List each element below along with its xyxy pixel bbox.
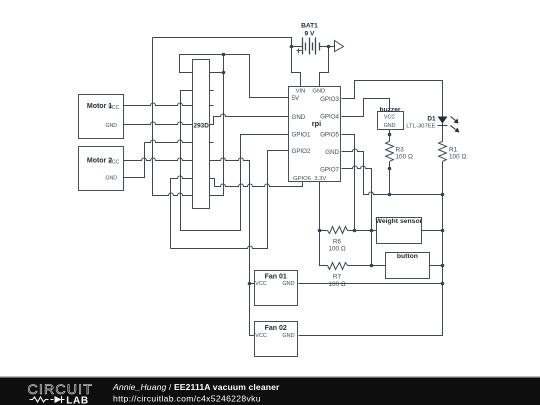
- junction R3 bottom: [388, 167, 392, 171]
- wire Motor1 VCC to chip pin3L: [123, 103, 193, 106]
- junction 3.3V at R6 left: [318, 229, 322, 233]
- svg-text:button: button: [397, 253, 418, 260]
- resistor R6: [328, 227, 348, 234]
- wire button right to vertical: [430, 265, 443, 267]
- LED D1 arrow triangle: [438, 117, 448, 124]
- wire R1 bottom down, Fan02 GND row: [299, 162, 443, 336]
- svg-text:VCC: VCC: [255, 281, 267, 287]
- svg-text:5V: 5V: [292, 95, 300, 102]
- svg-text:Annie_Huang / EE2111A vacuum c: Annie_Huang / EE2111A vacuum cleaner: [112, 382, 280, 392]
- wire chip pin7R jog to rpi GPIO6: [210, 179, 303, 187]
- svg-text:GPIO5: GPIO5: [320, 131, 339, 138]
- wire VCC vertical x=223.5 pin1R/pin8R: [210, 55, 224, 196]
- battery BAT1 plates: [303, 38, 320, 55]
- wire LED to R1: [442, 126, 444, 142]
- svg-text:GPIO2: GPIO2: [292, 148, 311, 155]
- weight sensor box: [377, 218, 422, 244]
- wire Motor2 VCC to chip pin6L: [123, 158, 193, 160]
- Fan 01 box: [255, 271, 298, 306]
- junction GPIO5 at R6 right: [353, 229, 357, 233]
- svg-text:D1: D1: [427, 115, 436, 122]
- button box: [386, 253, 430, 279]
- svg-text:VCC: VCC: [255, 333, 267, 339]
- resistor R1: [439, 141, 447, 161]
- svg-text:buzzer: buzzer: [380, 107, 401, 114]
- wire Motor1 GND to chip pin4L: [123, 122, 193, 125]
- component boxes: [79, 60, 430, 357]
- chip 293D body: [193, 60, 210, 209]
- junction GPIO7 at R7 right button row: [370, 264, 374, 268]
- svg-text:VCC: VCC: [384, 115, 395, 121]
- junction ground rail at LED/R1 column: [441, 193, 445, 197]
- wire rpi GPIO5 down to R6 row: [342, 135, 355, 231]
- svg-text:Fan 01: Fan 01: [265, 273, 287, 280]
- wire R7 row: vertical from R6 dot, zigzag, to button: [320, 231, 328, 266]
- battery plus sign: [297, 49, 302, 54]
- svg-text:GPIO1: GPIO1: [292, 131, 311, 138]
- LED D1 cathode bar: [438, 125, 448, 127]
- Fan 02 box: [255, 322, 298, 357]
- wire top rail from left vertical to battery: [153, 38, 292, 47]
- svg-text:VCC: VCC: [108, 160, 119, 166]
- junction buzzer GND to R3 top: [388, 133, 392, 137]
- wire Motor2 GND jog up to chip pin5L: [123, 140, 193, 178]
- svg-text:100 Ω: 100 Ω: [396, 154, 413, 161]
- wire rpi GND right down to ground rail: [342, 149, 443, 195]
- junction at chip pin 1R tee: [222, 71, 226, 75]
- wire chip pin6R to fans VCC: [210, 158, 255, 335]
- wire rpi GPIO4 to buzzer top: [342, 99, 390, 117]
- svg-text:GND: GND: [292, 114, 306, 121]
- wire GND jog battery to rpi: [320, 47, 329, 87]
- chip pin stubs right 2R 3R 5R: [210, 91, 214, 143]
- svg-text:GPIO3: GPIO3: [320, 96, 339, 103]
- junction button right on GND column: [441, 264, 445, 268]
- LED emission arrows: [451, 117, 460, 133]
- svg-text:LAB: LAB: [66, 395, 89, 405]
- junction on 5V rail: [222, 53, 226, 57]
- svg-text:BAT1: BAT1: [301, 22, 318, 29]
- svg-text:100 Ω: 100 Ω: [328, 281, 345, 288]
- svg-text:GPIO4: GPIO4: [320, 114, 339, 121]
- svg-text:VCC: VCC: [108, 105, 119, 111]
- wire rpi 3.3V down to R6: [319, 181, 321, 231]
- wire VIN jog battery to rpi: [292, 47, 301, 87]
- wire battery left lead: [292, 46, 303, 48]
- svg-text:9 V: 9 V: [305, 30, 315, 37]
- junction Fan 01 VCC tee: [248, 282, 252, 286]
- resistor R3: [386, 141, 394, 161]
- svg-text:R3: R3: [396, 146, 405, 153]
- wire rpi GPIO7 down to R7 row: [342, 166, 372, 266]
- bottom bar: [0, 376, 540, 405]
- net flag triangle: [335, 41, 344, 52]
- wire weight sensor right to vertical: [422, 230, 443, 232]
- Motor 2 box: [79, 147, 124, 191]
- junction R3 branch on ground rail: [388, 193, 392, 197]
- wire U2 to rpi GPIO2: [171, 151, 289, 249]
- wire R6 row left: [320, 230, 328, 232]
- buzzer box: [378, 112, 404, 130]
- wire Fan01 GND row: [299, 283, 443, 285]
- svg-text:Weight sensor: Weight sensor: [376, 218, 423, 225]
- junction GPIO7 branch weight sensor row: [370, 229, 374, 233]
- wire R7 right to button left: [348, 265, 386, 267]
- wire chip pin4R jog to rpi GND left: [210, 114, 289, 124]
- svg-text:LTL-307EE: LTL-307EE: [406, 124, 435, 130]
- svg-text:GPIO6: GPIO6: [293, 176, 311, 182]
- junction at battery positive terminal: [290, 45, 294, 49]
- wire tall left vertical + pin8L row: [153, 38, 193, 196]
- svg-text:GND: GND: [282, 333, 294, 339]
- svg-text:GND: GND: [325, 149, 339, 156]
- svg-text:GND: GND: [105, 123, 117, 129]
- wire Fan01 VCC stub: [250, 283, 255, 285]
- wire buzzer bottom to R3: [389, 130, 391, 142]
- wire R3 bottom to ground rail: [389, 162, 391, 195]
- resistor R7: [328, 263, 348, 270]
- wire 5V rail: pin1L up, across, down to rpi 5V: [180, 55, 289, 98]
- junction Fan 01 GND on GND column: [441, 282, 445, 286]
- svg-text:GND: GND: [105, 176, 117, 182]
- junction weight sensor right on GND column: [441, 229, 445, 233]
- junction at battery negative terminal: [327, 45, 331, 49]
- svg-text:R1: R1: [449, 146, 458, 153]
- svg-text:GND: GND: [384, 123, 396, 129]
- svg-text:100 Ω: 100 Ω: [449, 154, 466, 161]
- wire rpi GPIO3 up over to LED: [342, 81, 443, 126]
- svg-text:293D: 293D: [194, 122, 210, 129]
- svg-text:Fan 02: Fan 02: [265, 325, 287, 332]
- svg-text:GND: GND: [282, 281, 294, 287]
- svg-text:http://circuitlab.com/c4x52462: http://circuitlab.com/c4x5246228vku: [113, 394, 261, 404]
- wire chip pin7L stub and vertical down: [171, 176, 193, 249]
- Motor 1 box: [79, 95, 124, 139]
- wire chip pin2L U to rpi GPIO1: [181, 91, 289, 231]
- svg-text:GND: GND: [312, 88, 325, 94]
- svg-text:GPIO7: GPIO7: [320, 166, 339, 173]
- svg-text:3.3V: 3.3V: [314, 176, 326, 182]
- wire R6 row right to weight sensor: [348, 230, 377, 232]
- svg-text:R6: R6: [333, 238, 342, 245]
- wire battery right lead to flag: [320, 46, 335, 48]
- svg-text:VIN: VIN: [296, 88, 306, 94]
- svg-text:100 Ω: 100 Ω: [328, 246, 345, 253]
- svg-text:rpi: rpi: [312, 119, 321, 128]
- rpi box: [289, 87, 341, 182]
- svg-text:R7: R7: [333, 274, 342, 281]
